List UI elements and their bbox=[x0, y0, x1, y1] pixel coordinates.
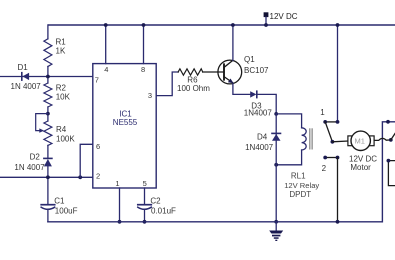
wire Q1 collector riser bbox=[232, 25, 234, 60]
svg-text:7: 7 bbox=[95, 75, 99, 84]
wire contact2 to bottom rail bbox=[337, 158, 339, 222]
svg-text:1K: 1K bbox=[56, 46, 66, 55]
svg-text:4: 4 bbox=[104, 65, 108, 74]
node junction pole2 lower contact bbox=[387, 159, 391, 163]
wire pin8 riser bbox=[143, 25, 145, 64]
wire pin7 / D1 horizontal bbox=[0, 76, 93, 78]
wire coil bottom branch bbox=[276, 150, 301, 165]
ground bbox=[269, 222, 283, 241]
node junction contact2 on bottom rail bbox=[336, 220, 340, 224]
wire pin4 riser bbox=[105, 25, 107, 64]
wire top +12V rail bbox=[48, 24, 395, 26]
diode D1 1N4007 bbox=[11, 63, 42, 91]
svg-text:1N 4007: 1N 4007 bbox=[11, 82, 42, 91]
svg-text:M1: M1 bbox=[355, 137, 365, 146]
svg-text:DPDT: DPDT bbox=[289, 190, 311, 199]
wire D3 to relay node bbox=[257, 94, 276, 114]
wire coil top branch bbox=[276, 114, 301, 128]
resistor R6 100 Ohm bbox=[177, 69, 210, 93]
relay contact 2 (pole 1) bbox=[322, 156, 340, 173]
node junction pole1 common bbox=[331, 140, 335, 144]
node junction D1 wire / left column bbox=[46, 75, 50, 79]
wire bottom ground rail bbox=[48, 122, 395, 222]
svg-text:R1: R1 bbox=[56, 38, 67, 47]
svg-text:D2: D2 bbox=[30, 152, 41, 161]
svg-text:10K: 10K bbox=[56, 92, 71, 101]
capacitor C2 0.01uF bbox=[138, 197, 176, 216]
svg-text:100uF: 100uF bbox=[55, 206, 78, 215]
wire R4 to D2 bbox=[47, 145, 49, 158]
diode D2 1N4007 bbox=[14, 152, 52, 172]
wire pin3 to R6 bbox=[156, 72, 178, 96]
svg-text:1: 1 bbox=[115, 179, 119, 188]
node junction 12V stub on rail bbox=[264, 23, 268, 27]
svg-text:Motor: Motor bbox=[350, 163, 371, 172]
node junction D3/D4/coil top bbox=[274, 112, 278, 116]
12V DC supply terminal bbox=[264, 12, 298, 25]
svg-text:C2: C2 bbox=[150, 197, 161, 206]
svg-text:BC107: BC107 bbox=[244, 66, 269, 75]
svg-text:12V Relay: 12V Relay bbox=[284, 181, 319, 190]
wire R1 to R2 bbox=[47, 67, 49, 84]
wire motor right with hop bbox=[374, 138, 391, 140]
op-amp IC1 NE555 box bbox=[93, 64, 156, 188]
diode D4 1N4007 bbox=[245, 114, 280, 165]
node junction on top rail bbox=[336, 23, 340, 27]
resistor R1 bbox=[44, 38, 66, 67]
node junction wiper tap bbox=[46, 112, 50, 116]
node junction pin4 on rail bbox=[104, 23, 108, 27]
svg-text:100 Ohm: 100 Ohm bbox=[177, 84, 210, 93]
relay switch blade pole 2 bbox=[391, 132, 395, 140]
svg-text:R4: R4 bbox=[56, 125, 67, 134]
wire R6 to Q1 base bbox=[203, 71, 224, 73]
node junction pin5 branch on bottom rail bbox=[143, 220, 147, 224]
wire pin2 horizontal bbox=[0, 176, 93, 178]
wire D4 to bottom rail bbox=[275, 165, 277, 222]
svg-text:12V DC: 12V DC bbox=[270, 12, 298, 21]
wire switch pole1 supply drop bbox=[337, 25, 339, 122]
svg-text:C1: C1 bbox=[54, 197, 65, 206]
svg-text:2: 2 bbox=[322, 164, 327, 173]
svg-text:D1: D1 bbox=[18, 63, 29, 72]
wire C2 to bottom rail bbox=[144, 210, 146, 222]
svg-text:1N 4007: 1N 4007 bbox=[14, 163, 45, 172]
relay switch blade pole 1 bbox=[325, 122, 332, 142]
potentiometer R4 100K bbox=[36, 114, 76, 146]
wire D2 to C1 bbox=[47, 166, 49, 204]
wire R2 to R4 bbox=[47, 107, 49, 121]
wire pole1 common to motor bbox=[332, 140, 348, 143]
node junction Q1 collector on rail bbox=[231, 23, 235, 27]
node junction pin8 on rail bbox=[142, 23, 146, 27]
node junction pin2 / left column bbox=[46, 175, 50, 179]
transistor Q1 BC107 bbox=[218, 55, 269, 84]
motor M1 bbox=[348, 131, 377, 172]
wire pin1 to ground rail bbox=[119, 188, 121, 222]
svg-text:3: 3 bbox=[148, 91, 152, 100]
svg-text:1N4007: 1N4007 bbox=[245, 143, 274, 152]
wire pin6 branch bbox=[80, 144, 93, 177]
svg-text:2: 2 bbox=[96, 172, 100, 181]
svg-text:D4: D4 bbox=[257, 132, 268, 141]
svg-text:Q1: Q1 bbox=[244, 55, 255, 64]
node junction pin6 branch on pin2 wire bbox=[78, 175, 82, 179]
diode D3 1N4007 bbox=[244, 91, 273, 117]
relay contact 1 (pole 1) bbox=[320, 108, 339, 124]
svg-text:1N4007: 1N4007 bbox=[244, 108, 273, 117]
node junction pin1 on bottom rail bbox=[118, 220, 122, 224]
svg-text:100K: 100K bbox=[56, 135, 75, 144]
wire pole2 lower contact loop bbox=[388, 161, 395, 186]
svg-text:NE555: NE555 bbox=[113, 118, 138, 127]
svg-text:1: 1 bbox=[320, 108, 325, 117]
svg-text:6: 6 bbox=[96, 142, 100, 151]
svg-text:8: 8 bbox=[141, 65, 145, 74]
svg-text:5: 5 bbox=[143, 179, 147, 188]
relay coil RL1 bbox=[284, 128, 319, 199]
wire pin5 to C2 bbox=[144, 188, 146, 204]
node junction right edge top bbox=[386, 120, 390, 124]
svg-text:RL1: RL1 bbox=[291, 171, 306, 180]
node junction relay branch on bottom rail bbox=[274, 220, 278, 224]
svg-text:R2: R2 bbox=[56, 84, 67, 93]
node junction pole2 common bbox=[389, 138, 393, 142]
node junction coil bottom / D4 bbox=[274, 163, 278, 167]
capacitor C1 100uF bbox=[41, 197, 77, 216]
wire Q1 emitter down bbox=[233, 84, 250, 95]
wire C1 to bottom rail bbox=[47, 210, 49, 222]
resistor R2 bbox=[44, 83, 71, 107]
wire left column top (rail to R1) bbox=[47, 25, 49, 39]
svg-text:0.01uF: 0.01uF bbox=[151, 206, 176, 215]
